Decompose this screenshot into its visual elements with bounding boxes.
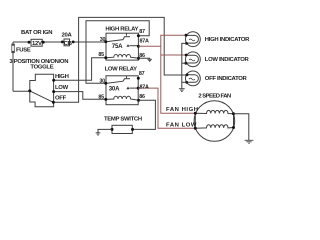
svg-text:FAN HIGH: FAN HIGH [166,107,199,113]
fan motor circle [194,101,235,142]
svg-text:20A: 20A [62,32,73,38]
relay U2 87A contact line [130,87,139,89]
node temp switch left [111,128,114,131]
node fan left bottom [194,127,197,130]
relay U2 armature [106,79,130,84]
relay U1 HIGH RELAY box [106,33,139,60]
temp switch box [112,125,132,133]
node U1 pin85 [104,56,107,59]
node U2 pin86 [137,99,140,102]
wire toggle HIGH to relay 85 [54,58,106,80]
svg-text:LOW RELAY: LOW RELAY [105,67,137,73]
node lamp3 top [186,73,189,76]
wire OFF riser top route [53,17,187,102]
ground at U1 86 [147,59,152,61]
svg-text:86: 86 [139,94,145,100]
node lamp2 top [185,54,188,57]
svg-text:87: 87 [139,29,145,35]
relay U1 coil [106,55,139,59]
svg-text:OFF INDICATOR: OFF INDICATOR [205,76,248,82]
fuse [12,44,15,53]
wire U1 86 to ground [139,58,150,59]
node temp switch right [131,128,134,131]
svg-text:HIGH INDICATOR: HIGH INDICATOR [205,37,250,43]
svg-text:OFF: OFF [55,96,67,102]
relay U1 87 contact stub [126,33,128,35]
red wire LOW 87A net [138,88,195,128]
svg-text:CB: CB [64,41,72,47]
relay U2 87 contact stub [126,76,128,78]
node lamp2 bottom [184,62,187,65]
svg-text:HIGH RELAY: HIGH RELAY [105,27,138,33]
svg-text:30: 30 [100,37,106,43]
node lamp1 top [185,34,188,37]
node U2 pin30 [104,82,107,85]
lamp OFF indicator [186,71,201,86]
node U1 pin86 [137,57,140,60]
node U1 pin30 [104,40,107,43]
svg-text:TEMP SWITCH: TEMP SWITCH [104,116,142,122]
svg-text:FUSE: FUSE [16,48,31,54]
wire battery feed [13,41,29,43]
node toggle LOW [52,90,55,93]
node CB left [61,41,64,44]
node fan right top [232,112,235,115]
svg-text:86: 86 [139,53,145,59]
relay U2 87A contact triangle [126,87,129,90]
svg-text:HIGH: HIGH [55,74,69,80]
wire toggle LOW to relay 85 [54,92,106,100]
wire feed CB to relay [43,41,62,43]
wire indicator ground bus [182,43,187,88]
wire temp switch to ground [98,129,112,132]
red wire HIGH 87A net [138,35,195,113]
fan HIGH winding [195,110,233,113]
battery 12V [31,39,42,46]
node U1 pin87 [137,34,140,37]
node toggle OFF [52,101,55,104]
svg-text:TOGGLE: TOGGLE [30,65,53,71]
svg-text:2 SPEED FAN: 2 SPEED FAN [198,94,231,100]
wire to toggle common [13,90,30,92]
node U2 pin85 [104,98,107,101]
node battery right [42,41,45,44]
lamp HIGH indicator [186,32,201,47]
node U1 pin87A [137,45,140,48]
svg-text:87A: 87A [140,39,149,45]
svg-text:87A: 87A [140,85,149,91]
fan LOW winding [195,125,233,129]
node U2 pin87 [137,77,140,80]
fan left chord [194,113,196,128]
svg-text:30A: 30A [109,86,120,93]
ground at indicator bus [179,89,185,92]
wire left rail [12,42,14,91]
relay U1 87A contact triangle [126,44,129,47]
svg-text:FAN LOW: FAN LOW [166,123,197,129]
circuit breaker CB [64,39,70,46]
node fan left top [194,112,197,115]
svg-text:87: 87 [139,71,145,77]
svg-text:12V: 12V [32,41,42,47]
node toggle HIGH [52,79,55,82]
svg-text:LOW INDICATOR: LOW INDICATOR [205,57,250,63]
lamp LOW indicator [186,52,201,67]
relay U1 armature [106,37,130,42]
node U2 pin87A [137,87,140,90]
fan right chord [233,114,235,128]
toggle lever [30,91,54,102]
wire fan to ground [234,114,249,141]
node lamp1 bottom [185,42,188,45]
node CB right [72,41,75,44]
svg-text:BAT OR IGN: BAT OR IGN [21,30,52,36]
svg-text:85: 85 [98,52,104,58]
wire U2 86 to temp switch [133,100,156,129]
node fan right bottom [232,126,235,129]
svg-text:85: 85 [98,95,104,101]
svg-text:LOW: LOW [55,85,69,91]
relay U2 LOW RELAY box [106,76,139,105]
svg-text:75A: 75A [112,43,123,50]
wire interlock top route [86,21,149,84]
node lamp3 bottom [185,81,188,84]
relay U1 87A contact line [130,45,139,47]
svg-text:30: 30 [99,78,105,84]
node battery left [28,41,31,44]
relay U2 coil [106,96,139,100]
node toggle common [28,89,31,92]
ground at fan [245,140,254,143]
toggle switch body [30,74,54,107]
ground at temp switch [96,133,101,136]
